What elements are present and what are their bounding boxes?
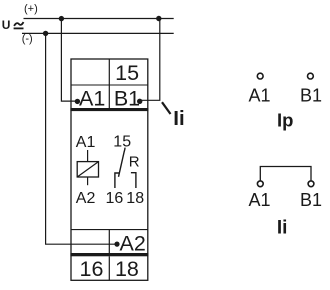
junction dot plus bus right	[156, 16, 161, 21]
svg-text:U: U	[2, 18, 11, 32]
coil top lead	[87, 150, 89, 162]
fixed contact 16	[115, 173, 119, 188]
svg-text:A1: A1	[248, 85, 270, 105]
svg-text:15: 15	[113, 134, 131, 151]
Ip terminal circle B1	[308, 73, 314, 79]
svg-text:A1: A1	[79, 86, 105, 110]
svg-text:A2: A2	[76, 190, 96, 207]
terminal dot B1	[137, 99, 142, 104]
contact blade 15	[119, 148, 126, 177]
svg-text:(+): (+)	[24, 3, 38, 15]
terminal dot A2	[114, 242, 119, 247]
svg-text:B1: B1	[300, 190, 322, 210]
svg-text:16: 16	[80, 257, 104, 281]
divider above A2 row	[71, 229, 148, 231]
svg-text:R: R	[129, 153, 140, 170]
relay module outline	[71, 59, 148, 280]
svg-text:A1: A1	[76, 134, 96, 151]
wire plus drop to B1	[140, 19, 160, 101]
svg-text:18: 18	[126, 190, 144, 207]
Ii terminal circle B1	[308, 181, 314, 187]
svg-text:A2: A2	[120, 232, 146, 256]
coil bottom lead	[87, 177, 89, 185]
wire plus drop to A1	[61, 19, 75, 102]
svg-text:18: 18	[115, 257, 139, 281]
svg-text:Ii: Ii	[277, 218, 288, 239]
wire plus bus	[24, 18, 174, 20]
thick bar under A1/B1 row	[70, 108, 148, 111]
svg-text:(-): (-)	[22, 33, 33, 45]
column divider top section	[108, 59, 110, 108]
svg-text:15: 15	[115, 61, 139, 85]
svg-text:Ip: Ip	[277, 109, 293, 130]
terminal dot A1	[75, 99, 80, 104]
Ii terminal circle A1	[257, 181, 263, 187]
wire minus drop to A2	[46, 33, 115, 244]
AC/DC symbol tilde	[14, 22, 23, 26]
wire minus bus	[22, 32, 174, 34]
Ii link wire	[260, 167, 311, 182]
thick bar under A2 row	[70, 253, 148, 256]
column divider A2 row	[108, 230, 110, 253]
svg-text:A1: A1	[248, 190, 270, 210]
junction dot minus bus	[43, 31, 48, 36]
coil box U1	[77, 162, 98, 177]
svg-text:Ii: Ii	[173, 107, 184, 130]
svg-text:B1: B1	[114, 86, 140, 110]
svg-text:16: 16	[106, 190, 124, 207]
junction dot plus bus left	[59, 16, 64, 21]
divider under 15 row	[71, 84, 148, 86]
column divider bottom row	[108, 256, 110, 280]
coil diagonal	[77, 162, 98, 177]
Ip terminal circle A1	[257, 73, 263, 79]
svg-text:B1: B1	[300, 85, 322, 105]
fixed contact 18	[131, 173, 136, 188]
pointer line Ii	[162, 102, 171, 114]
AC/DC symbol bar	[14, 27, 24, 29]
